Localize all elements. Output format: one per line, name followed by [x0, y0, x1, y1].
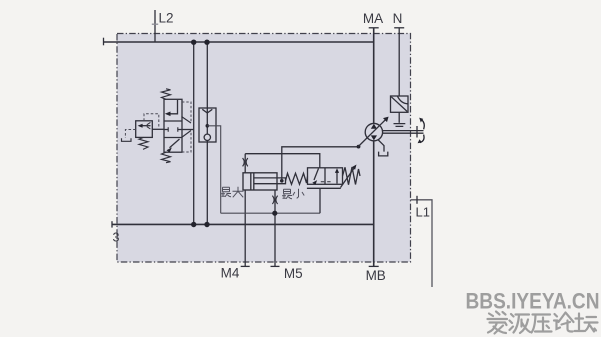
directional control valve V1 (3-position) body: [164, 99, 182, 152]
pump case drain wire: [378, 140, 384, 152]
cylinder rod: [254, 178, 286, 184]
svg-text:MB: MB: [366, 268, 386, 283]
label min (Chinese): [282, 189, 304, 199]
V1 middle cell blocked stubs: [164, 127, 182, 131]
cartridge poppet circle: [204, 134, 210, 140]
case drain tank symbol: [379, 152, 388, 156]
shaft end tick: [416, 126, 418, 138]
rod end dot: [280, 179, 284, 183]
V2 drain wire: [319, 188, 321, 213]
cartridge branch node dot: [206, 124, 210, 128]
port MB tick: [369, 265, 379, 267]
port L1 tick: [416, 196, 418, 204]
pilot line 1 end dot: [357, 145, 361, 149]
filter symbol on port N: [391, 96, 409, 112]
cartridge inlet chevron: [202, 109, 212, 113]
V1 top cell arrow: [169, 100, 178, 114]
pressure control valve V2 (2-position) body: [308, 168, 343, 185]
label max (Chinese): [221, 187, 244, 198]
variable pump circle: [365, 123, 382, 140]
V1 right port wire: [182, 129, 194, 131]
port L2 tick: [152, 23, 158, 25]
label M4: [221, 265, 240, 280]
pilot line 1 (to swashplate): [282, 147, 359, 181]
V2 underline bar: [307, 187, 341, 189]
vertical wire B (x=207.3): [206, 42, 208, 224]
port N plug bars: [394, 124, 406, 127]
label L1: [416, 205, 430, 220]
pump flow triangles: [371, 124, 377, 141]
orifice O1 wire: [244, 154, 246, 173]
port M4 tick: [241, 265, 250, 267]
pilot line 2: [245, 154, 320, 168]
reducing valve pilot dashes: [125, 114, 158, 138]
svg-text:M5: M5: [284, 266, 303, 281]
orifice O2 arcs: [272, 196, 277, 204]
watermark line 2 (Chinese): [488, 312, 598, 334]
V2 bottom stubs: [321, 181, 331, 183]
port M5 wire: [274, 190, 276, 267]
cylinder piston: [251, 173, 254, 190]
port L1 wire: [411, 200, 433, 287]
V2 right cell arrow: [336, 172, 338, 184]
V2 adjustable spring: [343, 167, 361, 185]
pump variable arrow: [358, 119, 386, 147]
watermark line 1: [466, 289, 600, 314]
bottom bus wire (port 3): [112, 223, 374, 225]
label L2: [159, 11, 174, 26]
shaft rotation arrows: [420, 119, 424, 142]
V1 top spring: [162, 89, 171, 100]
V1 bottom spring: [162, 152, 171, 163]
drain gallery junction dot: [272, 211, 277, 216]
svg-text:BBS.IYEYA.CN: BBS.IYEYA.CN: [466, 289, 600, 314]
reducing valve arrow: [141, 125, 151, 127]
drain gallery wire y=213: [221, 212, 320, 214]
V1 bottom cell arrow: [170, 139, 180, 148]
V1 left port wire: [152, 128, 164, 130]
orifice O1 arcs: [243, 158, 248, 166]
port M5 tick: [271, 265, 280, 267]
port M4 wire: [244, 190, 246, 267]
V2 spring adjust arrow: [341, 168, 355, 188]
port MA / MB main vertical wire: [373, 28, 375, 267]
vertical wire A (x=194): [193, 42, 195, 224]
pump drive shaft: [383, 131, 424, 134]
label M5: [284, 266, 303, 281]
branch wire from cartridge to drain gallery: [207, 126, 220, 213]
V2 left cell arrow: [314, 169, 319, 181]
svg-text:MA: MA: [363, 11, 383, 26]
svg-text:L1: L1: [416, 205, 430, 220]
svg-text:N: N: [393, 11, 403, 26]
pressure reducing valve body: [136, 121, 153, 138]
port 3 end tick: [111, 221, 113, 227]
pressure cut-off cartridge body: [199, 108, 216, 142]
V1 pilot dashes upper right: [182, 102, 191, 152]
min stop spring: [286, 173, 308, 184]
top bus left end tick: [103, 38, 105, 46]
svg-text:3: 3: [113, 231, 120, 245]
port MA tick: [369, 27, 379, 29]
port N wire: [398, 28, 400, 96]
V1 pilot wing diagonals: [182, 117, 192, 138]
label MB: [366, 268, 386, 283]
port N tick: [394, 27, 404, 29]
svg-text:L2: L2: [159, 11, 174, 26]
reducing valve seat ticks: [147, 122, 151, 129]
stroking cylinder barrel: [243, 173, 277, 190]
pump unit envelope (dash-dot box): [117, 34, 411, 263]
svg-text:M4: M4: [221, 265, 240, 280]
label MA: [363, 11, 383, 26]
label port 3: [113, 231, 120, 245]
port L2 wire: [154, 10, 156, 42]
label N: [393, 11, 403, 26]
junction dots on buses: [191, 40, 210, 228]
reducing valve spring: [139, 137, 148, 149]
top bus wire: [104, 41, 374, 43]
reducing valve drain bracket: [122, 138, 132, 141]
port N wire below filter: [398, 112, 400, 123]
